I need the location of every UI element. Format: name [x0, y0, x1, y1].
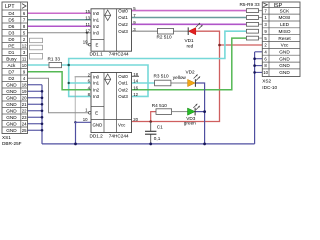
- wire D7 to In2 pin 4: [28, 72, 92, 90]
- resistor R9: [246, 36, 258, 40]
- svg-text:PE: PE: [8, 43, 14, 48]
- wire R9 to ISP pin 5: [259, 37, 263, 39]
- node VD3 cathode junction: [203, 110, 206, 113]
- wire C1 bottom lead: [150, 134, 152, 144]
- svg-text:D5: D5: [8, 17, 14, 22]
- node GND21 junction: [41, 103, 44, 106]
- wire ISP GND8 stub: [255, 65, 263, 67]
- wire GND25 stub: [28, 129, 43, 131]
- wire Out3 to R2: [132, 30, 158, 32]
- node In0 ground tie junction: [74, 121, 76, 123]
- resistor R2: [158, 28, 174, 34]
- svg-text:11: 11: [86, 22, 91, 27]
- svg-text:Vcc: Vcc: [118, 122, 126, 127]
- wire GND19 stub: [28, 90, 43, 92]
- wire ISP GND10 stub: [255, 71, 263, 73]
- svg-text:10: 10: [263, 70, 268, 75]
- svg-text:GND: GND: [6, 102, 17, 107]
- svg-text:D7: D7: [8, 69, 14, 74]
- svg-text:74HC244: 74HC244: [109, 133, 129, 138]
- resistor R7: [246, 22, 258, 26]
- svg-text:GND: GND: [279, 63, 290, 68]
- resistor R3: [155, 80, 171, 86]
- svg-text:E: E: [95, 111, 98, 116]
- svg-text:13: 13: [85, 15, 90, 20]
- wire MISO net from R8 to DD1.2 inputs: [69, 31, 247, 96]
- wire MISO tap to In1 pin 6: [69, 82, 91, 84]
- svg-text:D0: D0: [8, 37, 14, 42]
- node GND19 junction: [41, 90, 44, 93]
- svg-text:In0: In0: [93, 74, 100, 79]
- wire R2 to VD1: [174, 30, 189, 32]
- svg-text:In1: In1: [93, 18, 100, 23]
- ground rail bottom: [42, 143, 255, 145]
- node C1 ground rail junction: [149, 143, 152, 146]
- svg-text:D2: D2: [8, 76, 14, 81]
- svg-text:10: 10: [83, 117, 88, 122]
- wire VD3 cathode to cathode bus: [195, 111, 205, 113]
- svg-text:GND: GND: [6, 95, 17, 100]
- svg-text:24: 24: [22, 121, 27, 126]
- resistor on D1 row: [30, 53, 43, 59]
- svg-text:10: 10: [22, 63, 27, 68]
- svg-text:SCK: SCK: [280, 8, 291, 13]
- svg-text:E: E: [96, 43, 99, 48]
- svg-text:20: 20: [133, 117, 138, 122]
- connector XS2 table: [262, 2, 300, 77]
- svg-text:GND: GND: [93, 122, 103, 127]
- svg-text:IDC-10: IDC-10: [262, 85, 277, 90]
- svg-text:GND: GND: [6, 108, 17, 113]
- wire D5 to In1: [28, 19, 92, 21]
- svg-text:GND: GND: [6, 89, 17, 94]
- wire VD1 cathode to Vcc riser: [132, 31, 220, 121]
- svg-text:18: 18: [22, 82, 27, 87]
- svg-text:In3: In3: [93, 94, 100, 99]
- svg-text:Out1: Out1: [118, 81, 128, 86]
- svg-text:15: 15: [85, 9, 90, 14]
- wire R7 to ISP pin 3: [259, 23, 263, 25]
- wire In0 ground drop: [74, 77, 76, 123]
- wire GND21 stub: [28, 103, 43, 105]
- node GND25 junction: [41, 129, 44, 132]
- svg-text:Out3: Out3: [118, 29, 128, 34]
- svg-text:yellow: yellow: [173, 75, 187, 80]
- svg-text:GND: GND: [279, 50, 290, 55]
- svg-text:D4: D4: [8, 11, 14, 16]
- svg-text:R4 510: R4 510: [152, 103, 168, 108]
- resistor on PE row: [30, 45, 43, 50]
- svg-text:25: 25: [22, 128, 27, 133]
- svg-text:74HC244: 74HC244: [109, 51, 129, 56]
- wire D3 branch to enable pin 19: [87, 33, 88, 45]
- svg-text:In3: In3: [93, 31, 100, 36]
- node ISP GND6 junction: [253, 57, 256, 60]
- svg-text:D6: D6: [8, 24, 14, 29]
- svg-text:21: 21: [22, 102, 27, 107]
- svg-text:Out0: Out0: [118, 8, 128, 13]
- resistor R8: [246, 29, 258, 33]
- svg-text:Busy: Busy: [6, 56, 17, 61]
- wire VD2 cathode down to ground rail: [195, 83, 204, 144]
- svg-text:XS1: XS1: [2, 135, 11, 140]
- svg-text:GND: GND: [6, 128, 17, 133]
- node MISO/In1 junction: [68, 82, 70, 84]
- svg-text:12: 12: [22, 43, 27, 48]
- wire R6 to ISP pin 1: [259, 17, 263, 19]
- node ISP GND10 junction: [253, 71, 256, 74]
- wire Ack to R1: [28, 64, 50, 66]
- svg-text:20: 20: [22, 95, 27, 100]
- svg-text:14: 14: [133, 79, 138, 84]
- node GND24 junction: [41, 122, 44, 125]
- svg-text:19: 19: [22, 89, 27, 94]
- svg-text:R3 510: R3 510: [154, 73, 170, 78]
- resistor R1: [49, 62, 62, 67]
- LED VD1: [188, 23, 202, 35]
- svg-text:GND: GND: [6, 115, 17, 120]
- node cathode bus to ground rail: [203, 143, 206, 146]
- wire R5 to ISP pin 7: [259, 10, 263, 12]
- node GND23 junction: [41, 116, 44, 119]
- node GND22 junction: [41, 109, 44, 112]
- svg-text:Out1: Out1: [118, 15, 128, 20]
- svg-text:D3: D3: [8, 30, 14, 35]
- svg-text:VD2: VD2: [186, 70, 196, 75]
- svg-text:In1: In1: [93, 81, 100, 86]
- node D3/enable junction: [86, 32, 88, 34]
- svg-text:0,1: 0,1: [154, 136, 161, 141]
- wire GND24 stub: [28, 123, 43, 125]
- op-amp buffer DD1.2: [88, 73, 131, 133]
- svg-text:16: 16: [133, 85, 138, 90]
- wire GND20 stub: [28, 97, 43, 99]
- wire ISP Vcc pin 2: [220, 44, 263, 46]
- svg-text:D1: D1: [8, 50, 14, 55]
- wire DD1.2 GND pin 10 to rail: [76, 122, 92, 144]
- svg-text:LPT: LPT: [5, 4, 15, 10]
- wire R4 to VD3: [172, 111, 188, 113]
- svg-text:Ack: Ack: [7, 63, 15, 68]
- svg-text:GND: GND: [6, 121, 17, 126]
- resistor R6: [246, 16, 258, 20]
- wire ISP GND6 stub: [255, 58, 263, 60]
- wire Out1 to R6 (MOSI): [132, 17, 247, 19]
- svg-text:LED: LED: [280, 22, 290, 27]
- svg-text:R5-R9 33: R5-R9 33: [240, 2, 260, 7]
- resistor R5: [246, 9, 258, 13]
- svg-text:MISO: MISO: [279, 29, 291, 34]
- wire R3 to VD2: [171, 82, 188, 84]
- pin 18 stub: [132, 75, 140, 77]
- resistor on D0 row: [30, 38, 43, 43]
- svg-text:11: 11: [22, 56, 27, 61]
- node Vcc riser junction: [218, 44, 221, 47]
- svg-text:Out3: Out3: [118, 94, 128, 99]
- svg-text:Reset: Reset: [278, 36, 291, 41]
- wire Out0 to R5 (SCK): [132, 10, 247, 12]
- wire C1 top lead: [150, 122, 152, 132]
- wire GND22 stub: [28, 110, 43, 112]
- svg-text:12: 12: [133, 92, 138, 97]
- LED VD2: [188, 74, 201, 87]
- wire D4 to In0: [28, 12, 92, 14]
- svg-text:GND: GND: [279, 70, 290, 75]
- svg-text:XS2: XS2: [262, 79, 271, 84]
- svg-text:R2 510: R2 510: [157, 34, 173, 39]
- wire ISP ground riser: [254, 52, 256, 144]
- svg-text:Out2: Out2: [118, 22, 128, 27]
- svg-text:green: green: [184, 121, 196, 126]
- svg-text:GND: GND: [6, 82, 17, 87]
- node R4/C1 Vcc rail junction: [149, 120, 152, 123]
- wire D3 to In3: [28, 32, 92, 34]
- svg-text:DD1.1: DD1.1: [90, 51, 104, 56]
- wire R4 to Vcc rail: [151, 112, 156, 122]
- svg-text:Out2: Out2: [118, 87, 128, 92]
- svg-text:In2: In2: [93, 24, 100, 29]
- wire GND23 stub: [28, 116, 43, 118]
- connector XS1 table: [2, 2, 28, 134]
- svg-text:23: 23: [22, 115, 27, 120]
- svg-text:red: red: [187, 44, 194, 49]
- svg-text:In2: In2: [93, 87, 100, 92]
- svg-text:19: 19: [83, 40, 88, 45]
- LED VD3: [188, 104, 200, 116]
- node GND pin10 rail junction: [74, 143, 77, 146]
- node MISO riser / R1 line junction: [67, 64, 70, 67]
- wire Out2 pin 16 to R9 (Reset): [132, 38, 247, 90]
- svg-text:DD1.2: DD1.2: [90, 133, 104, 138]
- wire LPT ground bus riser: [41, 85, 43, 144]
- capacitor C1: [145, 131, 156, 134]
- wire GND18 stub: [28, 84, 43, 86]
- resistor R4: [156, 109, 172, 115]
- svg-text:Vcc: Vcc: [281, 43, 289, 48]
- svg-text:GND: GND: [279, 56, 290, 61]
- svg-text:Out0: Out0: [118, 74, 128, 79]
- svg-text:22: 22: [22, 108, 27, 113]
- node GND20 junction: [41, 96, 44, 99]
- wire D2 to enable pin 1: [28, 78, 89, 113]
- wire Out2 to R7 (LED): [132, 23, 247, 25]
- wire ISP GND4 stub: [255, 51, 263, 53]
- svg-text:C1: C1: [157, 125, 163, 130]
- wire In0 pin 2 tied to ground: [75, 76, 91, 78]
- svg-text:MOSI: MOSI: [279, 15, 291, 20]
- wire Out1 pin 14 to R3: [132, 82, 155, 84]
- wire D6 to In2: [28, 25, 92, 27]
- svg-text:VD1: VD1: [185, 38, 195, 43]
- svg-text:In0: In0: [93, 11, 100, 16]
- svg-text:R1 33: R1 33: [48, 56, 61, 61]
- wire R1 to Out3 pin 12: [62, 65, 149, 96]
- svg-text:17: 17: [85, 28, 90, 33]
- node ISP GND8 junction: [253, 64, 256, 67]
- op-amp buffer DD1.1: [88, 8, 131, 51]
- svg-text:DBR-25F: DBR-25F: [2, 141, 22, 146]
